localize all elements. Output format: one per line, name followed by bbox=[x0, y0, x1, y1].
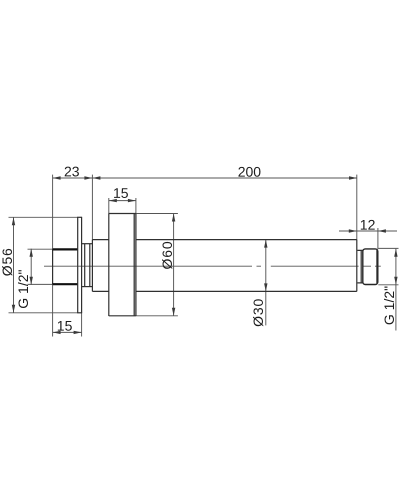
svg-text:G 1/2": G 1/2" bbox=[381, 286, 397, 325]
shared extension 23/200 bbox=[91, 175, 93, 240]
svg-text:12: 12 bbox=[360, 217, 376, 233]
arrow O60 up bbox=[172, 214, 175, 222]
arrow G1/2 right down bbox=[394, 277, 397, 285]
arrow G1/2 right up bbox=[394, 249, 397, 257]
extension line below nipple bbox=[52, 284, 54, 336]
flange top cap bbox=[77, 216, 82, 218]
cylinder O60 right edge double line bbox=[134, 214, 136, 317]
top dimension line 23/200 bbox=[53, 177, 357, 179]
flange disc O56 right line bbox=[81, 217, 83, 312]
fitting thread relief groove bbox=[357, 250, 363, 283]
svg-text:200: 200 bbox=[238, 164, 262, 180]
dim O56 bottom extension bbox=[9, 312, 78, 314]
dim G1/2 right line bbox=[395, 249, 397, 331]
tube left face bbox=[91, 240, 93, 292]
arrow 200 left bbox=[92, 176, 100, 179]
fitting thread body G1/2 bbox=[363, 249, 378, 285]
arrow O30 down bbox=[264, 283, 267, 291]
extension line left of nipple bbox=[52, 175, 54, 250]
dim O56 top extension bbox=[9, 216, 78, 218]
svg-text:G 1/2": G 1/2" bbox=[15, 269, 31, 308]
nipple thread bottom extension to G1/2 dim bbox=[28, 283, 53, 285]
tube right end face bbox=[356, 240, 358, 292]
nipple thread top (thick) bbox=[53, 248, 78, 250]
dim 15 bottom line bbox=[53, 331, 82, 333]
dim O60 line bbox=[173, 214, 175, 316]
arrow O56 up bbox=[12, 217, 15, 225]
flange disc O56 left line bbox=[77, 217, 79, 312]
nipple thread top extension to G1/2 dim bbox=[28, 248, 53, 250]
arrow G1/2 left up bbox=[30, 249, 33, 257]
cylinder O60 bottom edge bbox=[109, 315, 136, 317]
dim O56 line bbox=[13, 217, 15, 312]
arrow 23 left bbox=[53, 176, 61, 179]
tube O30 bottom edge bbox=[92, 290, 356, 292]
arrow O60 down bbox=[172, 308, 175, 316]
arrow 12 right (outside) bbox=[378, 229, 386, 232]
fitting chamfer line bbox=[376, 250, 378, 285]
arrow G1/2 left down bbox=[30, 277, 33, 285]
svg-text:15: 15 bbox=[113, 185, 129, 201]
collar hub lines bbox=[85, 244, 90, 287]
dim 15 top line bbox=[109, 200, 136, 202]
cylinder O60 top edge bbox=[109, 213, 136, 215]
arrow 12 left (outside) bbox=[349, 229, 357, 232]
nipple G1/2 left face bbox=[52, 249, 54, 284]
svg-text:23: 23 bbox=[64, 163, 80, 179]
collar bottom edge bbox=[82, 286, 93, 288]
dim 12 line bbox=[339, 230, 397, 232]
centerline bbox=[44, 265, 381, 267]
arrow 15 top right bbox=[128, 199, 136, 202]
dim O60 extensions bbox=[136, 214, 178, 316]
cylinder O60 left edge bbox=[108, 214, 110, 317]
collar top edge bbox=[82, 243, 93, 245]
arrow O30 up bbox=[264, 240, 267, 248]
tube O30 top edge bbox=[92, 239, 356, 241]
arrow 15 bottom right bbox=[74, 331, 82, 334]
dim 15 bottom right extension bbox=[81, 313, 83, 337]
dim 15 top extension overshoots bbox=[109, 198, 136, 214]
svg-text:15: 15 bbox=[57, 318, 73, 334]
svg-text:Ø56: Ø56 bbox=[0, 247, 15, 276]
arrow 15 top left bbox=[109, 199, 117, 202]
flange bottom cap bbox=[77, 312, 82, 314]
dim G1/2 left line bbox=[30, 249, 32, 285]
dim 12 right extension bbox=[377, 228, 379, 249]
dim G1/2 right extensions bbox=[378, 248, 398, 284]
nipple thread bottom (thick) bbox=[53, 283, 78, 285]
dim O30 line bbox=[265, 240, 267, 326]
extension at tube end (200) bbox=[356, 175, 358, 240]
arrow 15 bottom left bbox=[53, 331, 61, 334]
arrow 23 right bbox=[84, 176, 92, 179]
arrow O56 down bbox=[12, 305, 15, 313]
arrow 200 right bbox=[349, 176, 357, 179]
svg-text:Ø60: Ø60 bbox=[159, 241, 175, 270]
svg-text:Ø30: Ø30 bbox=[250, 298, 266, 327]
